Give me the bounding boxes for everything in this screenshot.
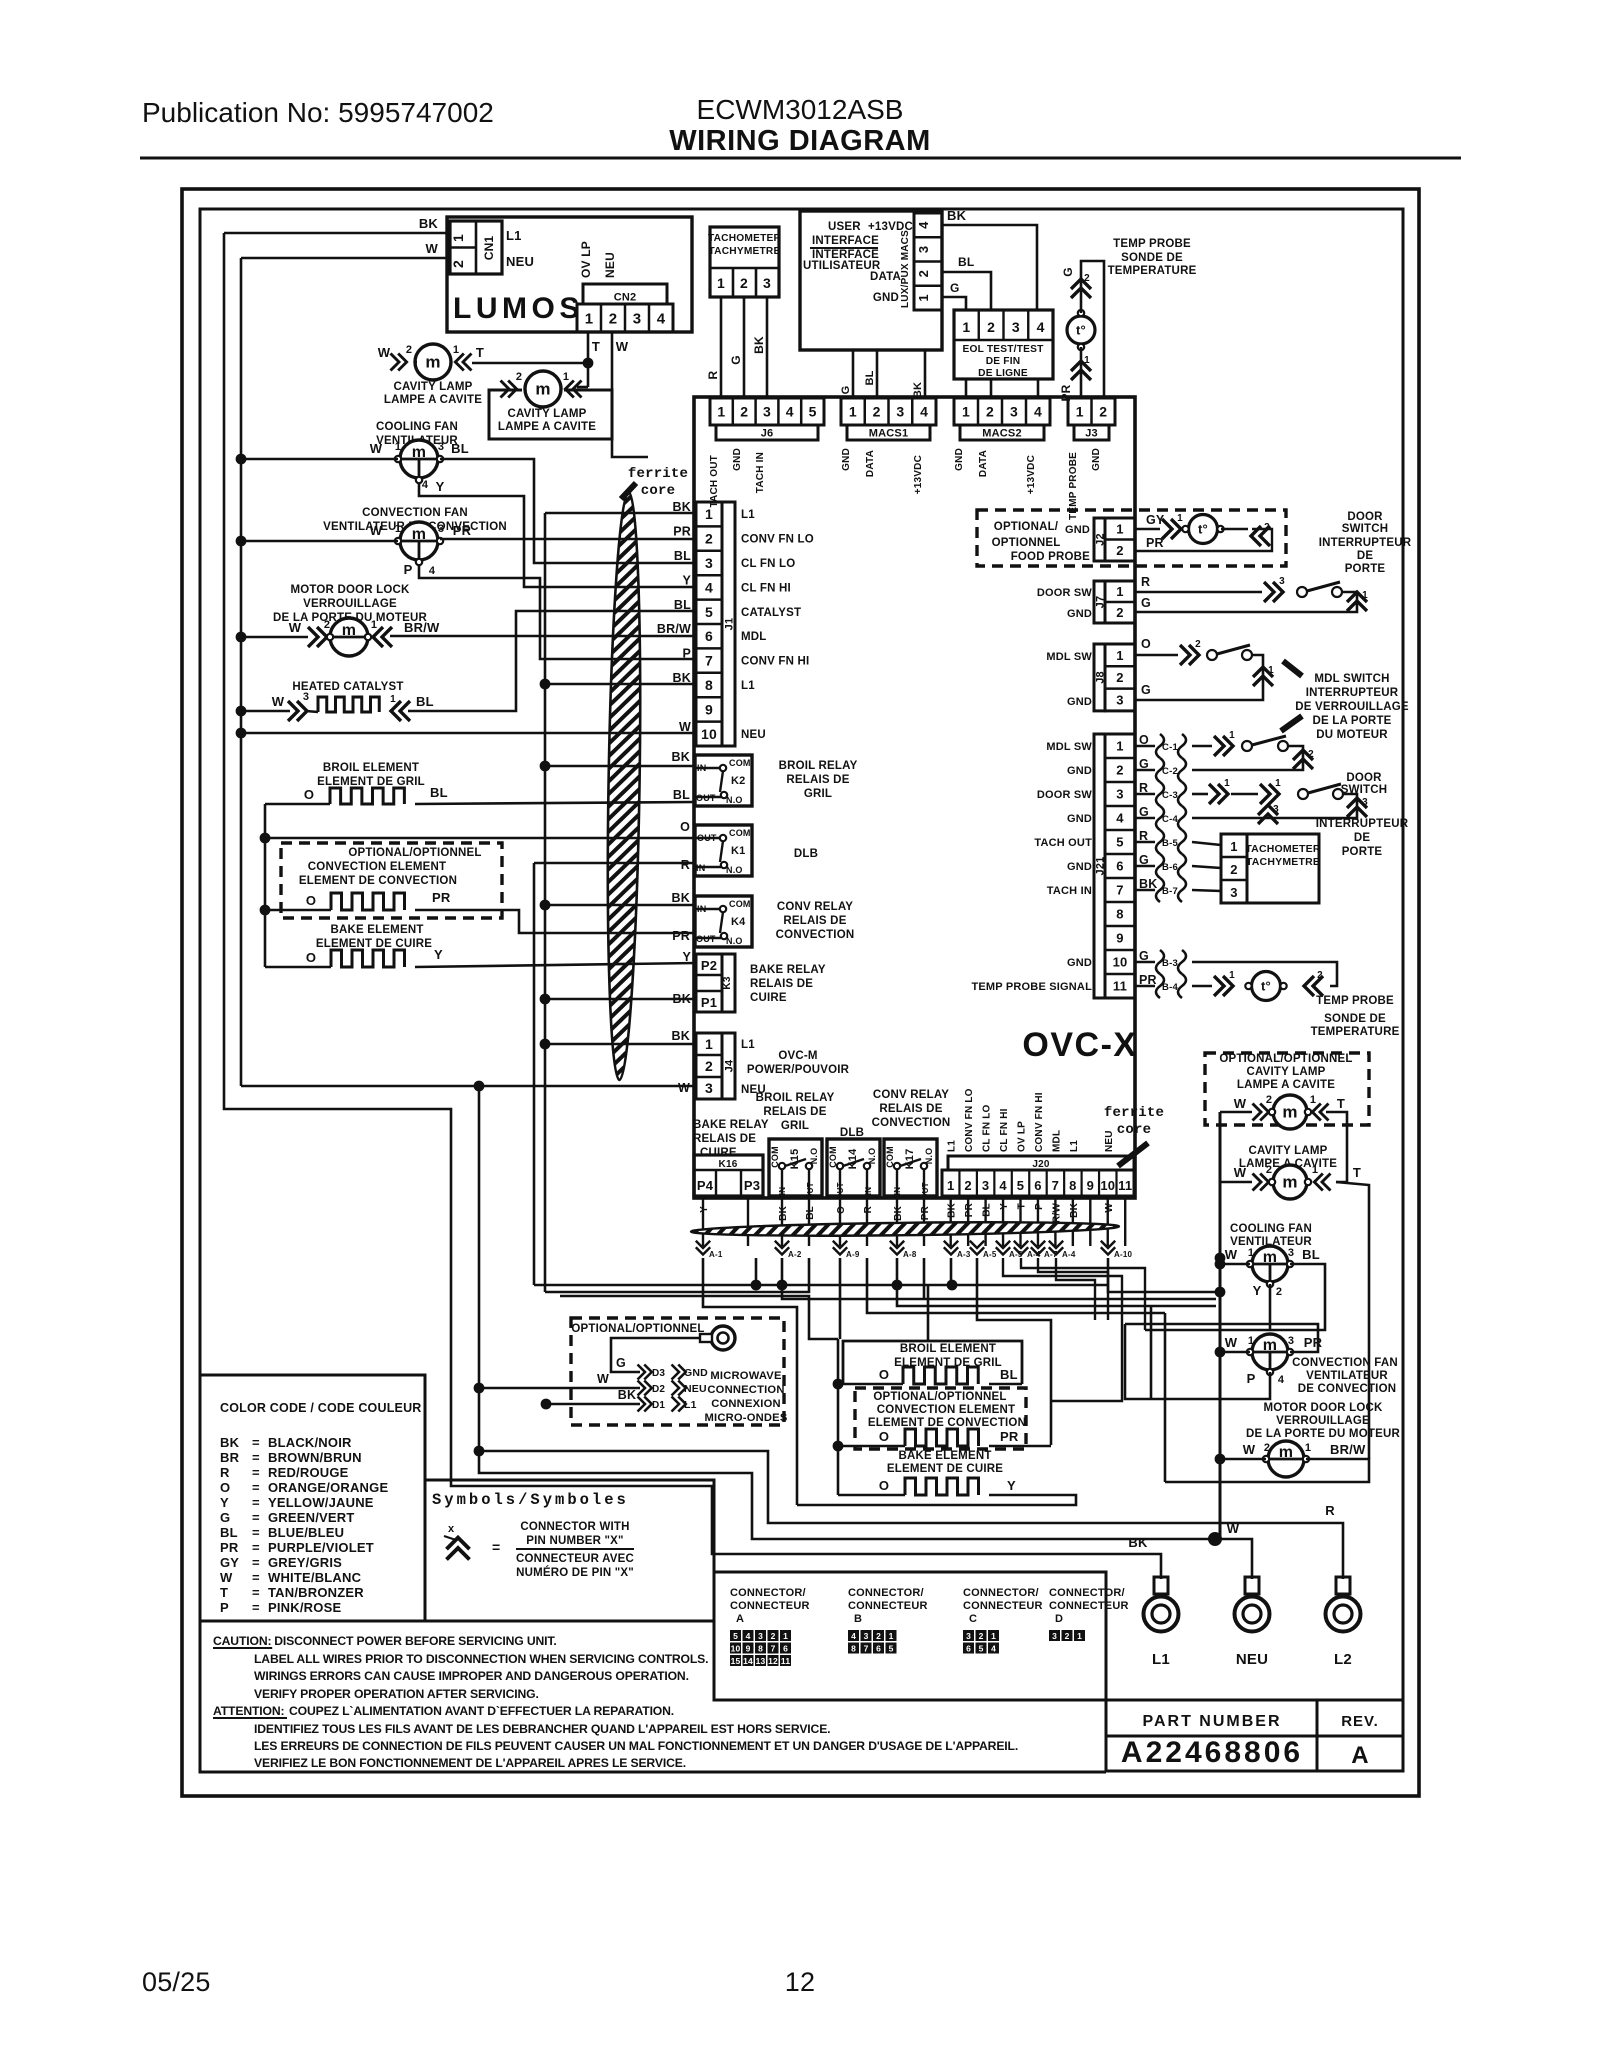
svg-text:3: 3 [896,404,904,420]
svg-text:9: 9 [1087,1178,1094,1193]
svg-text:SONDE DE: SONDE DE [1324,1013,1386,1025]
svg-text:1: 1 [1310,1094,1316,1106]
svg-text:5: 5 [733,1631,738,1641]
svg-text:CL FN HI: CL FN HI [741,582,791,594]
svg-text:LAMPE A CAVITE: LAMPE A CAVITE [498,421,596,433]
MDL switch circuit J21 pins1-2 [1192,745,1212,748]
svg-text:3: 3 [1288,1335,1294,1347]
svg-text:RELAIS DE: RELAIS DE [763,1106,826,1118]
svg-text:RELAIS DE: RELAIS DE [693,1133,756,1145]
svg-text:D1: D1 [652,1400,665,1411]
svg-text:=: = [252,1585,260,1600]
svg-text:BL: BL [430,785,448,800]
svg-text:MACS1: MACS1 [869,428,909,440]
svg-text:A-9: A-9 [846,1250,860,1259]
svg-text:RED/ROUGE: RED/ROUGE [268,1465,349,1480]
svg-text:MACS2: MACS2 [982,428,1022,440]
svg-text:BK: BK [947,208,967,223]
svg-text:1: 1 [563,371,569,383]
svg-text:PR: PR [220,1540,239,1555]
svg-text:OPTIONNEL: OPTIONNEL [992,537,1061,549]
svg-text:ferrite: ferrite [628,466,688,482]
svg-text:Publication No: 5995747002: Publication No: 5995747002 [142,97,494,128]
svg-text:2: 2 [876,1631,881,1641]
svg-text:TAN/BRONZER: TAN/BRONZER [268,1585,364,1600]
svg-text:GREEN/VERT: GREEN/VERT [268,1510,355,1525]
svg-text:L1: L1 [741,680,755,692]
svg-text:C-3: C-3 [1162,790,1178,801]
svg-text:GND: GND [873,292,899,304]
svg-text:W: W [220,1570,233,1585]
svg-text:=: = [252,1495,260,1510]
svg-text:W: W [1234,1096,1247,1111]
svg-text:CAVITY LAMP: CAVITY LAMP [507,408,586,420]
svg-text:4: 4 [1116,811,1124,826]
svg-text:L1: L1 [1069,1140,1080,1152]
tachometer connector box top [710,227,779,297]
svg-text:L1: L1 [741,509,755,521]
cavity lamp 2 loop box [489,390,612,439]
wire conv element O to bus [265,909,331,912]
cavity lamp 2 [501,381,517,398]
svg-text:GND: GND [1067,608,1092,620]
svg-text:3: 3 [1052,1631,1057,1641]
svg-text:CL FN HI: CL FN HI [999,1108,1010,1152]
ferrite core arrow top [621,483,636,499]
svg-text:10: 10 [701,726,717,742]
svg-text:BR/W: BR/W [404,620,440,635]
svg-text:BR/W: BR/W [657,622,691,636]
svg-text:R: R [706,370,720,379]
svg-text:2: 2 [1116,605,1123,620]
svg-text:W: W [289,620,302,635]
svg-text:MICROWAVE: MICROWAVE [710,1370,782,1382]
svg-text:9: 9 [746,1644,751,1654]
caution text box [200,1621,1106,1772]
svg-text:P: P [1247,1371,1256,1386]
svg-text:DE: DE [1357,550,1374,562]
svg-text:PURPLE/VIOLET: PURPLE/VIOLET [268,1540,374,1555]
svg-text:P: P [220,1600,229,1615]
ground lug [711,1326,735,1350]
wire R to K1 IN [534,862,695,865]
svg-text:D3: D3 [652,1368,665,1379]
svg-text:1: 1 [705,1036,713,1052]
svg-text:GND: GND [684,1367,708,1379]
svg-text:GND: GND [1067,765,1092,777]
svg-text:J21: J21 [1095,857,1107,876]
connector chevrons below ferrite A-1..A-10 [696,1241,710,1255]
svg-text:TEMPERATURE: TEMPERATURE [1311,1026,1400,1038]
svg-text:NEU: NEU [684,1383,707,1395]
connector J20 [948,1156,1134,1170]
svg-text:R: R [681,858,690,872]
wire R run to L2 [474,1446,485,1457]
svg-text:BL: BL [805,1206,816,1220]
wire cooling fan W to bus [241,458,398,461]
svg-text:A-5: A-5 [983,1250,997,1259]
svg-text:1: 1 [717,404,725,420]
svg-text:GND: GND [1091,448,1102,471]
wire BK bus to J4 pin1 [545,1043,696,1046]
J21 ferrite squiggles [1135,745,1155,747]
wire BK user interface to EOL pin4 [942,225,1037,310]
wire ground lug to G chevron [611,1338,700,1372]
wires motor door lock right [1215,1454,1226,1465]
svg-text:=: = [252,1525,260,1540]
connector J3 [1068,398,1115,425]
svg-text:CAVITY LAMP: CAVITY LAMP [1246,1066,1325,1078]
R mid vertical x=534 [533,863,536,1285]
svg-text:MDL SW: MDL SW [1046,741,1092,753]
optional cavity lamp dashed box [1205,1053,1369,1125]
svg-text:7: 7 [705,653,713,669]
svg-text:A-10: A-10 [1114,1250,1132,1259]
door switch circuit J21 pins3-4 [1192,793,1208,796]
wire broil O to O-bus [265,803,330,806]
svg-text:DE CONVECTION: DE CONVECTION [1298,1383,1396,1395]
relay K1 DLB [695,825,752,876]
svg-text:J8: J8 [1095,671,1107,684]
svg-text:CATALYST: CATALYST [741,607,801,619]
svg-text:GND: GND [732,448,743,471]
wire T from lamp1 to CN2 pin1 [472,362,588,365]
svg-text:TACH OUT: TACH OUT [1034,837,1092,849]
svg-text:LUX/PUX MACS: LUX/PUX MACS [900,230,911,308]
svg-text:CONNECTOR/: CONNECTOR/ [730,1587,806,1599]
svg-text:m: m [1282,1103,1297,1122]
wires optional lamp [1220,1111,1252,1114]
svg-text:MDL SWITCH: MDL SWITCH [1314,673,1389,685]
svg-text:DU MOTEUR: DU MOTEUR [1316,729,1388,741]
svg-text:1: 1 [916,294,931,301]
svg-text:12: 12 [785,1967,815,1997]
svg-text:K16: K16 [719,1159,738,1170]
svg-text:10: 10 [1113,955,1128,970]
svg-text:PR: PR [673,525,691,539]
svg-text:+13VDC: +13VDC [913,455,924,494]
svg-text:W: W [272,694,285,709]
svg-text:CONNECTEUR: CONNECTEUR [730,1600,810,1612]
svg-text:3: 3 [763,275,771,291]
svg-text:FOOD PROBE: FOOD PROBE [1011,551,1090,563]
svg-text:3: 3 [763,404,771,420]
microwave D3 GND [638,1365,652,1380]
svg-text:P: P [404,562,413,577]
svg-text:K2: K2 [731,775,745,787]
svg-text:1: 1 [991,1631,996,1641]
svg-text:5: 5 [889,1644,894,1654]
wire BK tach to J6 pin3 [766,297,769,398]
svg-text:COOLING FAN: COOLING FAN [1230,1223,1312,1235]
microwave connection optional dashed box [571,1318,784,1425]
svg-text:1: 1 [1116,739,1123,754]
svg-text:2: 2 [1308,749,1314,760]
MDL label arrow 1 [1283,661,1302,676]
svg-text:3: 3 [303,691,309,703]
svg-text:BL: BL [673,788,690,802]
svg-text:CONVECTION ELEMENT: CONVECTION ELEMENT [308,861,446,873]
svg-text:BROIL RELAY: BROIL RELAY [756,1092,835,1104]
svg-text:3: 3 [1273,804,1279,815]
svg-text:8: 8 [705,677,713,693]
svg-text:SWITCH: SWITCH [1342,523,1389,535]
svg-text:3: 3 [1288,1247,1294,1259]
svg-text:PIN NUMBER "X": PIN NUMBER "X" [526,1535,623,1547]
wire J20 NEU to W trunk [1108,1285,1220,1292]
svg-text:ECWM3012ASB: ECWM3012ASB [697,94,904,125]
svg-text:SONDE DE: SONDE DE [1121,252,1183,264]
wire conv element PR to K4 OUT [415,910,695,933]
MDL label arrow 2 [1281,716,1302,731]
color code box [200,1375,425,1621]
wire from CN2 pin2 down [612,332,648,457]
svg-text:CL FN LO: CL FN LO [741,558,795,570]
wire W to microwave NEU [479,1387,640,1390]
wire W bus to J1 pin10 NEU [241,732,696,735]
svg-text:T: T [220,1585,228,1600]
wire to MDL loop [1164,1313,1167,1482]
svg-text:TACH OUT: TACH OUT [709,455,720,508]
svg-text:BLACK/NOIR: BLACK/NOIR [268,1435,352,1450]
svg-text:=: = [252,1465,260,1480]
svg-text:1: 1 [1248,1247,1254,1259]
svg-text:N.O: N.O [809,1148,819,1165]
svg-text:A-3: A-3 [957,1250,971,1259]
svg-text:BK: BK [618,1388,636,1402]
svg-text:RELAIS DE: RELAIS DE [783,915,846,927]
svg-text:EOL TEST/TEST: EOL TEST/TEST [962,344,1044,355]
ferrite core horizontal ellipse [691,1220,1119,1238]
svg-text:DLB: DLB [840,1127,864,1139]
svg-text:OUT: OUT [806,1182,815,1200]
svg-text:2: 2 [964,1178,971,1193]
svg-text:T: T [1353,1165,1361,1180]
food probe optional dashed box [977,510,1286,566]
ferrite core arrow bottom [1118,1143,1148,1166]
svg-text:A-4: A-4 [1062,1250,1076,1259]
user interface pin strip 4-3-2-1 [914,213,942,310]
svg-text:J20: J20 [1032,1159,1050,1170]
svg-text:3: 3 [1116,692,1123,707]
svg-text:1: 1 [947,1178,954,1193]
svg-text:1: 1 [1116,648,1123,663]
wire catalyst W to bus [241,710,290,713]
svg-text:2: 2 [1230,862,1237,877]
wire MDL BR/W to J1 pin6 [390,635,696,638]
svg-text:x: x [448,1523,455,1535]
svg-text:MDL: MDL [741,631,767,643]
svg-text:3: 3 [1116,787,1123,802]
svg-text:W: W [1225,1335,1238,1350]
svg-text:CONVECTION FAN: CONVECTION FAN [1292,1357,1398,1369]
svg-text:OV LP: OV LP [1017,1121,1028,1152]
svg-text:W: W [597,1372,609,1386]
svg-text:05/25: 05/25 [142,1967,211,1997]
svg-text:G: G [840,386,852,395]
connector J21 [1105,734,1135,998]
svg-text:G: G [1141,683,1151,697]
svg-text:ELEMENT DE GRIL: ELEMENT DE GRIL [317,776,425,788]
connector J6 [710,398,824,425]
svg-text:8: 8 [1116,907,1123,922]
svg-text:2: 2 [1266,1094,1272,1106]
svg-text:4: 4 [916,221,931,229]
svg-text:3: 3 [982,1178,989,1193]
svg-text:TACHOMETER: TACHOMETER [708,233,782,244]
svg-text:BAKE ELEMENT: BAKE ELEMENT [898,1450,991,1462]
wires convection fan right [1215,1347,1226,1358]
svg-text:CONNEXION: CONNEXION [711,1398,781,1410]
svg-text:T: T [1017,1203,1028,1209]
svg-text:15: 15 [731,1656,741,1666]
user interface box [800,211,942,350]
svg-text:TACH IN: TACH IN [1047,885,1092,897]
svg-text:CONV FN HI: CONV FN HI [741,656,809,668]
svg-text:t°: t° [1076,323,1086,338]
connector J7 [1105,581,1135,623]
svg-text:3: 3 [705,1080,713,1096]
svg-text:BK: BK [672,1029,690,1043]
svg-text:DATA: DATA [978,450,989,477]
svg-text:m: m [1282,1173,1297,1192]
microwave D1 L1 [638,1397,652,1412]
svg-text:4: 4 [991,1644,996,1654]
svg-text:2: 2 [1065,1631,1070,1641]
svg-text:MOTOR DOOR LOCK: MOTOR DOOR LOCK [1263,1402,1383,1414]
svg-text:R: R [863,1205,874,1213]
wire G user interface to EOL pin1 [942,297,966,310]
wire catalyst BL to J1 pin5 [408,611,696,711]
svg-text:GND: GND [841,448,852,471]
svg-text:YELLOW/JAUNE: YELLOW/JAUNE [268,1495,374,1510]
svg-text:BK: BK [220,1435,240,1450]
ring terminal L1 [1154,1577,1168,1594]
EOL test connector box [954,310,1053,379]
svg-text:K14: K14 [847,1148,859,1169]
svg-text:1: 1 [395,441,401,453]
svg-text:GND: GND [1067,861,1092,873]
svg-text:PR: PR [453,523,472,538]
svg-text:CUIRE: CUIRE [750,992,787,1004]
svg-text:B-4: B-4 [1162,982,1178,993]
svg-text:L1: L1 [506,228,522,243]
relay K3 bake P2/P1 [696,954,722,1012]
svg-text:K17: K17 [904,1149,916,1170]
svg-text:BL: BL [982,1203,993,1217]
svg-text:1: 1 [1224,778,1230,789]
wire BK bus to K3 P1 [545,998,696,1001]
svg-text:BROIL ELEMENT: BROIL ELEMENT [323,762,419,774]
svg-text:GY: GY [220,1555,239,1570]
svg-text:3: 3 [1362,797,1368,808]
svg-text:1: 1 [962,404,970,420]
svg-text:B: B [854,1613,862,1625]
svg-text:4: 4 [429,565,436,577]
svg-text:COLOR CODE / CODE COULEUR: COLOR CODE / CODE COULEUR [220,1401,422,1415]
svg-text:11: 11 [1113,979,1127,994]
svg-text:core: core [641,483,675,499]
svg-text:2: 2 [1264,1442,1270,1454]
svg-text:2: 2 [873,404,881,420]
svg-text:Y: Y [999,1203,1010,1210]
svg-text:COUPEZ L`ALIMENTATION AVANT D`: COUPEZ L`ALIMENTATION AVANT D`EFFECTUER … [289,1704,674,1718]
svg-text:TEMPERATURE: TEMPERATURE [1108,265,1197,277]
svg-text:C-1: C-1 [1162,742,1178,753]
svg-text:1: 1 [390,694,396,705]
svg-text:=: = [252,1570,260,1585]
svg-text:2: 2 [450,260,466,268]
svg-text:LES ERREURS DE CONNECTION DE F: LES ERREURS DE CONNECTION DE FILS PEUVEN… [254,1739,1018,1753]
svg-text:BAKE ELEMENT: BAKE ELEMENT [330,924,423,936]
svg-text:1: 1 [1312,1164,1318,1176]
svg-text:11: 11 [1118,1178,1132,1193]
svg-text:CN1: CN1 [482,236,496,261]
svg-text:BL: BL [958,255,974,269]
ring terminal L2 [1336,1577,1350,1594]
svg-text:CONNECTION: CONNECTION [707,1384,784,1396]
svg-text:OPTIONAL/OPTIONNEL: OPTIONAL/OPTIONNEL [571,1323,704,1335]
svg-text:OUT: OUT [696,934,716,944]
svg-text:INTERFACE: INTERFACE [812,235,879,247]
svg-text:10: 10 [1100,1178,1115,1193]
svg-text:t°: t° [1198,522,1208,537]
svg-text:2: 2 [705,1058,713,1074]
BK mid bus vertical x=545 [544,513,547,1292]
svg-text:DE FIN: DE FIN [986,356,1021,367]
svg-text:4: 4 [422,479,429,491]
svg-text:BL: BL [1302,1247,1320,1262]
svg-text:1: 1 [1305,1442,1311,1454]
svg-text:=: = [252,1450,260,1465]
wire bake Y loop [797,1495,1076,1505]
temp probe circuit bottom right [1192,962,1337,986]
svg-text:N.O: N.O [867,1148,877,1165]
svg-text:8: 8 [851,1644,856,1654]
svg-text:RELAIS DE: RELAIS DE [879,1103,942,1115]
svg-text:G: G [616,1356,626,1370]
svg-text:Y: Y [699,1206,710,1213]
svg-text:L2: L2 [1334,1651,1352,1668]
wires cooling fan right [1215,1253,1226,1264]
svg-text:OUT: OUT [696,793,716,803]
svg-text:1: 1 [1084,355,1090,366]
svg-text:1: 1 [450,234,466,242]
svg-text:W: W [1225,1247,1238,1262]
svg-text:4: 4 [999,1178,1007,1193]
svg-text:P: P [1034,1203,1045,1210]
wire W to J4 pin3 [241,1085,697,1088]
svg-text:A22468806: A22468806 [1121,1736,1303,1769]
wire cooling fan BL to J1 pin3 [440,459,696,563]
svg-text:3: 3 [705,555,713,571]
svg-text:CONNECTEUR: CONNECTEUR [963,1600,1043,1612]
svg-text:BK: BK [672,891,690,905]
svg-text:G: G [729,355,743,365]
svg-text:5: 5 [809,404,817,420]
svg-text:N.O: N.O [726,865,743,875]
svg-text:W: W [616,339,629,354]
svg-text:USER: USER [828,221,861,233]
bundle wires bottom [756,1258,1108,1285]
svg-text:L1: L1 [684,1399,697,1411]
svg-text:LAMPE A CAVITE: LAMPE A CAVITE [384,394,482,406]
svg-text:1: 1 [1177,513,1183,524]
svg-text:3: 3 [1012,319,1020,335]
svg-text:OVC-M: OVC-M [778,1050,817,1062]
svg-text:DOOR SW: DOOR SW [1037,789,1093,801]
svg-text:3: 3 [966,1631,971,1641]
